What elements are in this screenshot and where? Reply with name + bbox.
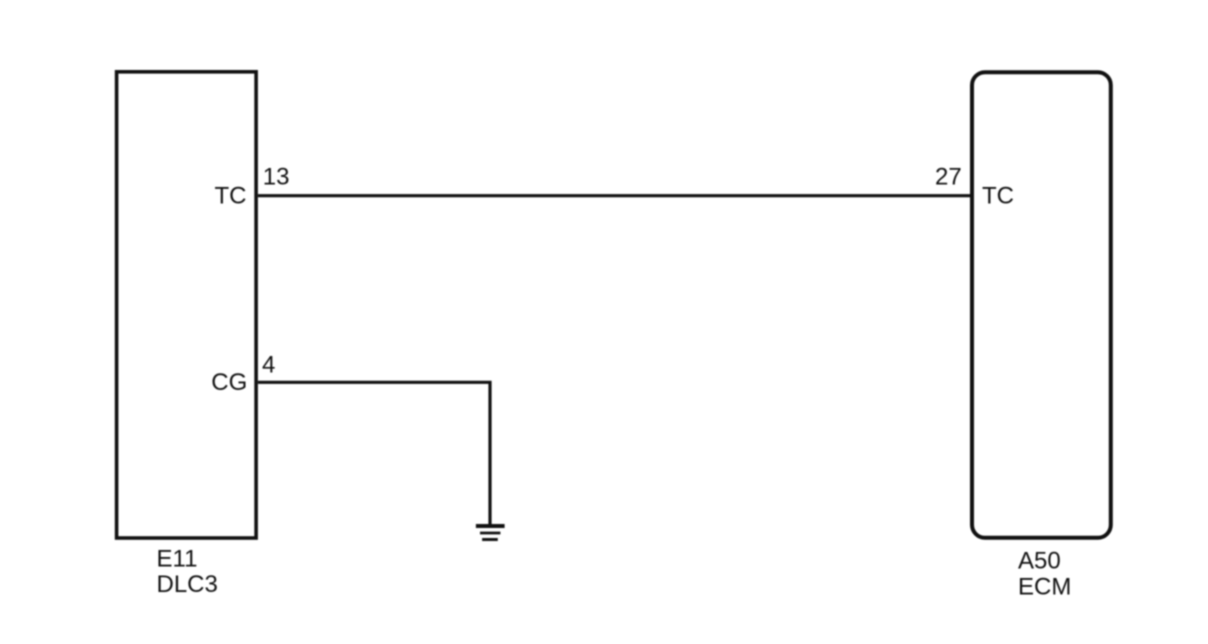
svg-text:CG: CG	[211, 369, 247, 396]
svg-text:27: 27	[935, 164, 962, 191]
svg-text:E11: E11	[157, 546, 198, 573]
svg-text:A50: A50	[1018, 547, 1061, 574]
svg-text:13: 13	[263, 164, 290, 191]
svg-text:4: 4	[262, 352, 275, 379]
svg-text:ECM: ECM	[1018, 573, 1071, 600]
svg-text:TC: TC	[982, 183, 1014, 210]
svg-text:DLC3: DLC3	[157, 571, 218, 598]
svg-text:TC: TC	[215, 183, 247, 210]
